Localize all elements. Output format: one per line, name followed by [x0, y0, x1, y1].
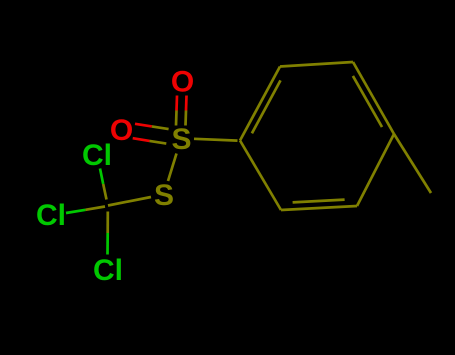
double bond S=O (top), line 2: [185, 96, 188, 111]
benzene inner double-bond line top-right-right: [353, 76, 382, 127]
benzene ring edge bottom-left to left: [240, 141, 281, 211]
benzene inner double-bond line left-top-left: [252, 80, 281, 133]
wire C-Cl (left) bond: [66, 210, 86, 213]
svg-text:Cl: Cl: [93, 254, 123, 287]
wire S1 to ring (S-C aryl bond): [194, 139, 238, 141]
benzene ring edge right to bottom-right: [357, 134, 394, 206]
wire C-Cl (top) bond: [100, 169, 103, 185]
benzene ring edge left to top-left: [240, 67, 280, 141]
benzene ring edge top-right to right: [353, 62, 394, 134]
double bond S=O (left), line 1: [135, 124, 152, 127]
double bond S=O (top), line 1: [175, 96, 178, 111]
wire S2-C bond: [108, 197, 151, 206]
benzene ring edge bottom-right to bottom-left: [281, 206, 357, 210]
benzene inner double-bond line bottom-right-bottom-left: [293, 200, 345, 203]
wire C-Cl (bottom) bond: [106, 233, 109, 255]
wire methyl bond from ring right vertex: [394, 134, 431, 193]
wire S1-S2 disulfide-like S-S bond: [168, 154, 177, 182]
svg-text:Cl: Cl: [36, 199, 66, 232]
svg-text:S: S: [171, 123, 191, 156]
svg-text:S: S: [154, 179, 174, 212]
svg-text:O: O: [171, 66, 194, 99]
benzene ring edge top-left to top-right: [280, 62, 353, 67]
svg-text:O: O: [110, 114, 133, 147]
double bond S=O (left), line 2: [133, 138, 150, 141]
svg-text:Cl: Cl: [82, 139, 112, 172]
